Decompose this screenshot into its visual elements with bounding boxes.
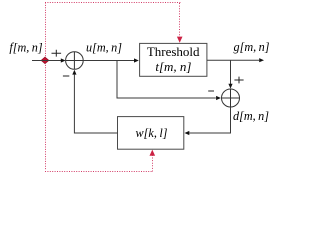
svg-text:Threshold: Threshold <box>147 44 200 59</box>
arrowhead into summing junction S1 <box>61 58 66 62</box>
arrowhead into Threshold <box>134 58 139 62</box>
label - at S1 feedback input <box>63 75 69 77</box>
svg-text:f[m, n]: f[m, n] <box>9 41 43 55</box>
wire red dotted top horizontal (f tap to threshold control) <box>45 2 181 4</box>
wire d from S2 down and left into w block <box>189 107 230 133</box>
arrowhead into S1 bottom <box>72 70 76 75</box>
wire branch from u down to S2 minus input <box>117 61 216 99</box>
svg-text:t[m, n]: t[m, n] <box>155 59 191 74</box>
label + at S2 input <box>234 77 243 84</box>
wire u from S1 to Threshold <box>83 60 134 62</box>
block w[k,l] <box>118 117 184 150</box>
label - at S2 input <box>208 90 214 92</box>
wire red dotted vertical into Threshold top <box>179 3 181 38</box>
arrowhead g output <box>259 58 264 62</box>
summing junction S2 <box>221 89 240 107</box>
svg-text:d[m, n]: d[m, n] <box>233 109 269 123</box>
node f tap (red diamond) <box>41 57 49 63</box>
red arrowhead into Threshold top <box>177 37 183 43</box>
wire red dotted vertical into w block bottom <box>152 155 154 172</box>
wire w output left and up to S1 bottom <box>74 75 117 133</box>
label + at S1 input <box>52 50 62 57</box>
arrowhead into w block right <box>185 131 190 135</box>
block Threshold t[m,n] <box>140 43 207 76</box>
wire branch from g down into S2 plus input <box>230 60 232 84</box>
arrowhead into S2 left <box>216 96 221 100</box>
wire red dotted bottom horizontal <box>45 171 152 173</box>
wire g output from Threshold <box>207 59 259 61</box>
wire f input <box>32 60 61 62</box>
svg-text:u[m, n]: u[m, n] <box>86 41 122 55</box>
arrowhead into S2 top <box>228 84 232 89</box>
summing junction S1 <box>66 52 84 70</box>
wire red dotted left vertical (through f tap node) <box>45 3 47 171</box>
red arrowhead into w block bottom <box>150 150 156 156</box>
svg-text:w[k, l]: w[k, l] <box>136 126 168 140</box>
svg-text:g[m, n]: g[m, n] <box>234 40 270 54</box>
